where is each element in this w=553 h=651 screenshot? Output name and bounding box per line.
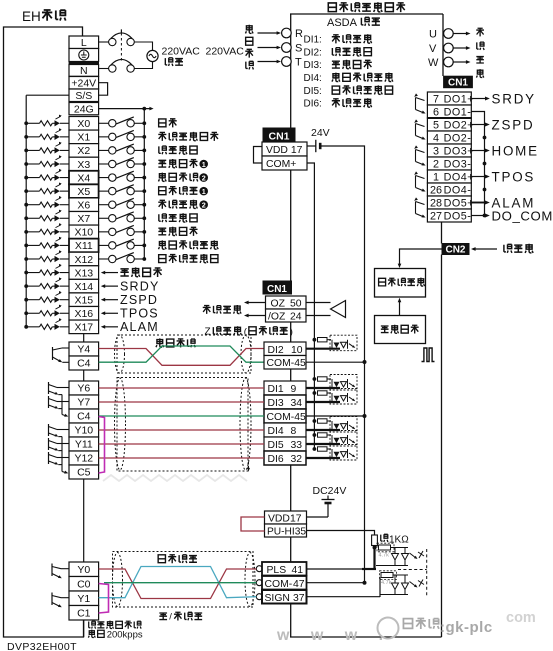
svg-text:): ) bbox=[290, 327, 293, 338]
input circuit X14: junction, resistor, photocoupler LED bbox=[24, 284, 28, 288]
junction under resistor bbox=[373, 546, 377, 550]
terminal X13 bbox=[69, 266, 99, 280]
svg-text:10: 10 bbox=[291, 345, 303, 356]
terminal C4 bbox=[69, 356, 99, 370]
svg-text:27: 27 bbox=[430, 211, 442, 223]
svg-text:220VAC: 220VAC bbox=[162, 46, 201, 58]
wire COM-45(2) to 24V bus bbox=[306, 415, 365, 417]
internal input circuit DI4: pull resistor and optocoupler bbox=[313, 419, 317, 423]
internal input circuit DI1: pull resistor and optocoupler bbox=[313, 377, 317, 381]
wire DC24V to VDD17 bbox=[307, 516, 329, 518]
internal dashed boundary bbox=[398, 569, 427, 571]
svg-text:OZ: OZ bbox=[271, 299, 286, 310]
input common bus (left) bbox=[25, 95, 27, 327]
open-collector transistor DO1 bbox=[416, 98, 425, 101]
twisted pair C4 wire (green) bbox=[99, 346, 264, 362]
breaker mechanical link (dashed) bbox=[120, 33, 122, 61]
open-collector transistor DO3 bbox=[416, 150, 425, 153]
wire +24V to S/S bbox=[99, 83, 108, 96]
terminal R bbox=[282, 28, 292, 38]
terminal DI6 pin 32 bbox=[264, 451, 306, 465]
pulse input photocoupler (PLS) bbox=[377, 543, 394, 552]
input signal arrow into X17 bbox=[104, 326, 118, 328]
svg-text:X6: X6 bbox=[77, 200, 90, 212]
wire PU-HI35 to limiting resistor bbox=[307, 531, 375, 536]
svg-text:DO5+: DO5+ bbox=[444, 198, 475, 210]
svg-text:COM-45: COM-45 bbox=[267, 358, 306, 369]
svg-text:28: 28 bbox=[430, 198, 442, 210]
shield B (DI bundle) bbox=[117, 378, 248, 472]
terminal Y12 bbox=[69, 451, 99, 465]
terminal pin 26 DO4- bbox=[427, 183, 471, 196]
terminal pin 6 DO1- bbox=[427, 105, 471, 118]
terminal Y1 bbox=[69, 591, 99, 606]
svg-text::gk-plc: :gk-plc bbox=[440, 619, 493, 636]
wire strip link C5-Y0 bbox=[83, 479, 85, 562]
svg-text:DO3+: DO3+ bbox=[444, 146, 475, 158]
svg-text:COM+: COM+ bbox=[266, 159, 296, 170]
svg-text:S: S bbox=[295, 43, 302, 55]
terminal C4 bbox=[69, 409, 99, 423]
terminal SIGN pin 37 bbox=[256, 594, 262, 600]
svg-text:1: 1 bbox=[433, 172, 439, 184]
DO- common bus bbox=[471, 112, 484, 216]
terminal +24V bbox=[69, 77, 99, 90]
svg-text:DI3:: DI3: bbox=[304, 60, 322, 71]
svg-text:X11: X11 bbox=[75, 240, 93, 252]
svg-text:4.7k: 4.7k bbox=[381, 580, 392, 586]
svg-text:Y4: Y4 bbox=[77, 344, 90, 356]
svg-text:W: W bbox=[428, 57, 439, 69]
internal input circuit DI6: pull resistor and optocoupler bbox=[313, 447, 317, 451]
label for X3 bbox=[158, 160, 166, 167]
svg-text:TPOS: TPOS bbox=[492, 169, 536, 184]
svg-text:DO4-: DO4- bbox=[444, 185, 472, 197]
svg-text:3: 3 bbox=[433, 146, 439, 158]
svg-text:C1: C1 bbox=[77, 608, 91, 620]
terminal X12 bbox=[69, 252, 99, 266]
label fwd/rev direction bbox=[159, 613, 167, 620]
servo drive enclosure bbox=[290, 13, 443, 15]
switch contact for X0 (start) bbox=[99, 122, 109, 124]
svg-text:Y6: Y6 bbox=[77, 383, 90, 395]
terminal pin 1 DO4+ bbox=[427, 170, 471, 183]
svg-text:TPOS: TPOS bbox=[120, 306, 159, 320]
svg-text:24: 24 bbox=[290, 312, 302, 323]
shield C (pulse output pair) bbox=[113, 552, 254, 608]
svg-text:Y7: Y7 bbox=[77, 397, 90, 409]
input circuit X12: junction, resistor, photocoupler LED bbox=[24, 257, 28, 261]
svg-text:DI4: DI4 bbox=[268, 426, 284, 437]
svg-text:34: 34 bbox=[291, 398, 303, 409]
svg-text:32: 32 bbox=[291, 454, 303, 465]
terminal pin 4 DO2- bbox=[427, 131, 471, 144]
svg-text:DVP32EH00T: DVP32EH00T bbox=[7, 641, 77, 651]
internal input circuit DI5: pull resistor and optocoupler bbox=[313, 433, 317, 437]
switch common bus bbox=[142, 107, 146, 111]
svg-text:SRDY: SRDY bbox=[492, 91, 536, 106]
jumper VDD17 to PU-HI35 (red bracket) bbox=[241, 517, 265, 531]
terminal Y0 bbox=[69, 562, 99, 577]
terminal S bbox=[282, 43, 292, 53]
svg-text:24G: 24G bbox=[74, 103, 94, 115]
terminal /OZ pin 24 bbox=[266, 309, 307, 322]
pulse sign photocoupler (SIGN) bbox=[380, 571, 397, 580]
svg-text:ALAM: ALAM bbox=[120, 320, 159, 334]
terminal X5 bbox=[69, 184, 99, 198]
svg-text:X13: X13 bbox=[74, 267, 93, 279]
label for X1 bbox=[158, 132, 166, 141]
wire COM- to 24V bus bbox=[307, 582, 365, 584]
output signal HOME bbox=[471, 150, 485, 152]
open-collector transistor DO2 bbox=[416, 124, 425, 127]
svg-text:C0: C0 bbox=[77, 579, 91, 591]
wire 24G common with arrow bbox=[99, 108, 151, 110]
svg-text:DO2+: DO2+ bbox=[444, 120, 475, 132]
input circuit X15: junction, resistor, photocoupler LED bbox=[24, 298, 28, 302]
terminal X10 bbox=[69, 225, 99, 239]
terminal COM+ bbox=[262, 156, 307, 170]
watermark wechat id text bbox=[403, 619, 412, 629]
terminal Y11 bbox=[69, 437, 99, 451]
COM+ bus wire bbox=[307, 163, 314, 449]
terminal X6 bbox=[69, 198, 99, 212]
svg-text:SRDY: SRDY bbox=[120, 279, 160, 293]
svg-text:DC24V: DC24V bbox=[313, 485, 347, 497]
input circuit X7: junction, resistor, photocoupler LED bbox=[24, 216, 28, 220]
watermark logo circle bbox=[378, 618, 399, 639]
wire PLS to photocoupler bbox=[307, 568, 363, 570]
separator bar bbox=[69, 62, 99, 65]
svg-text:26: 26 bbox=[430, 185, 442, 197]
twisted pair Y4 wire (red) bbox=[99, 349, 264, 366]
label pulse output bbox=[158, 555, 165, 563]
svg-text:DO3-: DO3- bbox=[444, 159, 472, 171]
switch contact for X2 (origin return) bbox=[99, 149, 109, 151]
svg-text:COM-45: COM-45 bbox=[267, 412, 306, 423]
breaker pole N bbox=[99, 68, 109, 70]
svg-text:DO2-: DO2- bbox=[444, 133, 472, 145]
jumper C4 to C5 (magenta) bbox=[99, 417, 105, 474]
svg-text:T: T bbox=[295, 57, 302, 69]
svg-text:24V: 24V bbox=[311, 127, 330, 139]
svg-text:DO5-: DO5- bbox=[444, 211, 472, 223]
svg-text:X10: X10 bbox=[74, 227, 93, 239]
output transistor Y6 bbox=[48, 382, 50, 394]
svg-text:37: 37 bbox=[293, 593, 305, 604]
wire SIGN to photocoupler bbox=[307, 596, 381, 598]
input circuit X4: junction, resistor, photocoupler LED bbox=[24, 176, 28, 180]
output transistor Y7 bbox=[48, 396, 50, 408]
svg-text:7: 7 bbox=[433, 94, 439, 106]
common emitter bus Y10-Y12 to C5 bbox=[61, 437, 63, 472]
output transistor Y4 bbox=[52, 347, 54, 360]
switch contact for X7 (emergency stop) bbox=[99, 217, 109, 219]
svg-text:X7: X7 bbox=[77, 213, 90, 225]
wire CN2 to deviation counter bbox=[400, 249, 443, 265]
switch contact for X5 (absolute pos 1) bbox=[99, 190, 109, 192]
svg-text:U: U bbox=[429, 29, 437, 41]
svg-text:ZSPD: ZSPD bbox=[120, 293, 158, 307]
svg-text:DO1-: DO1- bbox=[444, 107, 472, 119]
svg-text:/OZ: /OZ bbox=[268, 312, 286, 323]
24V bus wire bbox=[320, 146, 364, 583]
svg-text:1KΩ: 1KΩ bbox=[389, 535, 409, 546]
svg-text:Y12: Y12 bbox=[74, 453, 93, 465]
svg-text:6: 6 bbox=[433, 107, 439, 119]
svg-text:C4: C4 bbox=[77, 411, 91, 423]
terminal C1 bbox=[69, 606, 99, 621]
label max input pulse 200kpps bbox=[89, 621, 96, 628]
svg-text:Z: Z bbox=[205, 327, 211, 338]
svg-text:C5: C5 bbox=[77, 467, 91, 479]
svg-text:V: V bbox=[429, 43, 437, 55]
terminal Y4 bbox=[69, 342, 99, 356]
servo drive title bbox=[328, 3, 336, 12]
svg-text:9: 9 bbox=[291, 384, 297, 395]
wire Y6 to DI1 (red) bbox=[99, 387, 264, 389]
label for X10 bbox=[158, 228, 166, 235]
PLC enclosure outline bbox=[4, 27, 84, 637]
input signal arrow into X16 bbox=[104, 312, 118, 314]
terminal C5 bbox=[69, 465, 99, 479]
terminal X17 bbox=[69, 320, 99, 334]
output signal DO_COM bbox=[471, 215, 485, 217]
terminal pin 28 DO5+ bbox=[427, 196, 471, 209]
svg-text:X2: X2 bbox=[77, 145, 90, 157]
svg-text:EH: EH bbox=[22, 9, 41, 24]
svg-text:DI2: DI2 bbox=[268, 345, 284, 356]
output transistor Y1 bbox=[51, 593, 53, 606]
svg-text:+24V: +24V bbox=[71, 78, 96, 90]
label differential signal bbox=[203, 305, 211, 314]
AC source 220VAC single phase bbox=[147, 50, 158, 61]
svg-text:R: R bbox=[295, 28, 303, 40]
label for X2 bbox=[159, 146, 167, 154]
input circuit X6: junction, resistor, photocoupler LED bbox=[24, 203, 28, 207]
wire Y11 to DI5 (red) bbox=[99, 443, 264, 445]
svg-text:DI4:: DI4: bbox=[304, 73, 322, 84]
jumper VDD to COM+ (left bracket) bbox=[254, 147, 263, 164]
terminal COM- pin 45 bbox=[264, 356, 306, 370]
wire Y10 to DI4 (red) bbox=[99, 429, 264, 431]
terminal Y6 bbox=[69, 381, 99, 395]
shield A (Z-phase pair) bbox=[117, 335, 251, 373]
three-phase arrows to R S T bbox=[258, 32, 278, 34]
input signal arrow into X14 bbox=[104, 285, 118, 287]
common emitter bus Y6/Y7 to C4 bbox=[61, 395, 63, 415]
terminal DI5 pin 33 bbox=[264, 437, 306, 451]
svg-text:C4: C4 bbox=[77, 358, 91, 370]
terminal X2 bbox=[69, 144, 99, 158]
svg-text:PU-HI35: PU-HI35 bbox=[267, 526, 306, 537]
input circuit X17: junction, resistor, photocoupler LED bbox=[24, 325, 28, 329]
terminal DI4 pin 8 bbox=[264, 423, 306, 437]
svg-text:S/S: S/S bbox=[75, 90, 92, 102]
svg-text:com: com bbox=[506, 610, 536, 626]
line receiver triangle bbox=[306, 302, 331, 304]
label for X6 bbox=[158, 200, 166, 209]
wire Y12 to DI6 (red) bbox=[99, 457, 264, 459]
terminal pin 27 DO5- bbox=[427, 209, 471, 222]
svg-text:COM-: COM- bbox=[265, 579, 293, 590]
input circuit X13: junction, resistor, photocoupler LED bbox=[24, 271, 28, 275]
svg-text:ZSPD: ZSPD bbox=[492, 117, 535, 132]
resistor approx 1Kohm bbox=[372, 535, 378, 546]
faint watermark hatch under DI bundle bbox=[103, 475, 247, 481]
24V supply symbol bbox=[307, 145, 316, 147]
DC24V supply symbol bbox=[327, 496, 329, 500]
input circuit X3: junction, resistor, photocoupler LED bbox=[24, 162, 28, 166]
svg-text:200kpps: 200kpps bbox=[107, 629, 143, 640]
svg-text:8: 8 bbox=[291, 426, 297, 437]
svg-text:1: 1 bbox=[202, 160, 206, 169]
terminal COM- pin 47 bbox=[256, 580, 262, 586]
svg-text:DI6:: DI6: bbox=[304, 99, 322, 110]
svg-text:w w w .: w w w . bbox=[276, 627, 392, 644]
svg-text:5: 5 bbox=[433, 120, 439, 132]
svg-text:VDD 17: VDD 17 bbox=[266, 145, 303, 156]
svg-text:2: 2 bbox=[433, 159, 439, 171]
wire strip link C4-Y6 bbox=[83, 370, 85, 381]
terminal DI3 pin 34 bbox=[264, 395, 306, 409]
switch contact for X12 (rev limit switch) bbox=[99, 258, 109, 260]
twisted pair Y1 wire (cyan) bbox=[99, 567, 257, 598]
deviation counter box bbox=[375, 269, 426, 298]
terminal pin 3 DO3+ bbox=[427, 144, 471, 157]
connector CN1 (power side) bbox=[263, 128, 295, 142]
terminal C0 bbox=[69, 577, 99, 592]
svg-text:4: 4 bbox=[433, 133, 439, 145]
output transistor Y0 bbox=[51, 564, 53, 577]
switch contact for X6 (absolute pos 2) bbox=[99, 204, 109, 206]
svg-text:ASDA: ASDA bbox=[327, 17, 358, 29]
input circuit X10: junction, resistor, photocoupler LED bbox=[24, 230, 28, 234]
switch contact for X4 (relative pos 2) bbox=[99, 177, 109, 179]
wire COM-45 to 24V bus bbox=[306, 361, 365, 363]
svg-text:X16: X16 bbox=[74, 308, 93, 320]
svg-text:X3: X3 bbox=[77, 159, 90, 171]
wire N to AC source bbox=[134, 62, 152, 69]
terminal L bbox=[69, 36, 99, 49]
input circuit X0: junction, resistor, photocoupler LED bbox=[24, 121, 28, 125]
terminal N bbox=[69, 65, 99, 77]
wire C4 to COM-45 (green) bbox=[99, 415, 264, 417]
svg-text:Y1: Y1 bbox=[77, 593, 90, 605]
svg-text:41: 41 bbox=[292, 565, 304, 576]
terminal X15 bbox=[69, 293, 99, 307]
wire S/S to input common bus bbox=[26, 94, 69, 96]
svg-text:X1: X1 bbox=[77, 132, 90, 144]
svg-text:Y11: Y11 bbox=[75, 439, 93, 451]
terminal DI1 pin 9 bbox=[264, 381, 306, 395]
terminal PLS pin 41 bbox=[256, 566, 262, 572]
connector CN2 bbox=[442, 244, 469, 255]
svg-text:2: 2 bbox=[202, 201, 206, 210]
svg-text:X12: X12 bbox=[74, 254, 93, 266]
svg-text:50: 50 bbox=[290, 299, 302, 310]
svg-text:DI1: DI1 bbox=[268, 384, 284, 395]
connector CN1 (output side) bbox=[444, 76, 473, 88]
switch contact for X10 (fault reset) bbox=[99, 231, 109, 233]
wire strip link X17-Y4 bbox=[83, 334, 85, 342]
input circuit X16: junction, resistor, photocoupler LED bbox=[24, 311, 28, 315]
electronic gear box bbox=[375, 316, 426, 344]
input circuit X1: junction, resistor, photocoupler LED bbox=[24, 135, 28, 139]
label pulse clear bbox=[156, 338, 164, 347]
terminal X3 bbox=[69, 157, 99, 171]
svg-text:1: 1 bbox=[202, 187, 206, 196]
label for X11 bbox=[158, 240, 166, 249]
svg-text:CN2: CN2 bbox=[445, 245, 465, 256]
input signal arrow into X15 bbox=[104, 299, 118, 301]
label for X5 bbox=[159, 187, 166, 195]
internal input circuit DI3: pull resistor and optocoupler bbox=[313, 391, 317, 395]
switch contact for X3 (relative pos 1) bbox=[99, 163, 109, 165]
thick wire PLS to resistor junction bbox=[373, 548, 375, 570]
svg-text:HOME: HOME bbox=[492, 143, 539, 158]
terminal VDD pin 17 bbox=[262, 142, 307, 156]
svg-text:DI5: DI5 bbox=[268, 440, 284, 451]
shield drain arrow bbox=[248, 462, 250, 468]
svg-text:DO4+: DO4+ bbox=[444, 172, 475, 184]
svg-text:Y10: Y10 bbox=[74, 425, 93, 437]
connector CN1 (pulse side) bbox=[263, 281, 292, 294]
terminal OZ pin 50 bbox=[266, 296, 307, 309]
svg-text:SIGN: SIGN bbox=[265, 593, 290, 604]
output signal ZSPD bbox=[471, 124, 485, 126]
jumper C0 to C1 (magenta) bbox=[99, 584, 109, 614]
svg-text:X0: X0 bbox=[77, 118, 90, 130]
svg-text:CN1: CN1 bbox=[268, 130, 289, 142]
terminal X4 bbox=[69, 171, 99, 185]
open-collector transistor DO5 bbox=[416, 202, 425, 205]
label encoder bbox=[504, 244, 512, 253]
svg-text:47: 47 bbox=[293, 579, 305, 590]
terminal DI2 pin 10 bbox=[264, 342, 306, 356]
input circuit X5: junction, resistor, photocoupler LED bbox=[24, 189, 28, 193]
output signal SRDY bbox=[471, 98, 485, 100]
svg-text:Y0: Y0 bbox=[77, 564, 90, 576]
breaker pole L bbox=[99, 41, 109, 43]
svg-text:X14: X14 bbox=[74, 281, 93, 293]
terminal Y7 bbox=[69, 395, 99, 409]
switch contact for X1 (pulse-output pause) bbox=[99, 136, 109, 138]
terminal T bbox=[282, 57, 292, 67]
terminal pin 2 DO3- bbox=[427, 157, 471, 170]
terminal COM-45 bbox=[264, 409, 306, 423]
input circuit X2: junction, resistor, photocoupler LED bbox=[24, 149, 28, 153]
svg-text:CN1: CN1 bbox=[267, 284, 287, 295]
svg-text:DO_COM: DO_COM bbox=[492, 208, 553, 223]
label for X12 bbox=[159, 255, 166, 263]
wire L to AC source bbox=[134, 42, 152, 50]
label for X0 bbox=[159, 119, 166, 127]
output transistor Y10 bbox=[48, 424, 50, 436]
svg-text:PLS: PLS bbox=[267, 565, 287, 576]
switch contact for X11 (fwd limit switch) bbox=[99, 244, 109, 246]
input circuit X11: junction, resistor, photocoupler LED bbox=[24, 244, 28, 248]
terminal pin 5 DO2+ bbox=[427, 118, 471, 131]
label for X7 bbox=[159, 214, 167, 222]
wire Y7 to DI3 (red) bbox=[99, 401, 264, 403]
wire strip link C1 to PLC bottom bbox=[83, 620, 85, 637]
label for X4 bbox=[158, 173, 166, 182]
open-collector transistor DO4 bbox=[416, 176, 425, 179]
svg-text:DO1+: DO1+ bbox=[444, 94, 475, 106]
terminal X1 bbox=[69, 130, 99, 144]
internal input circuit DI2: pull resistor and optocoupler bbox=[313, 338, 317, 342]
